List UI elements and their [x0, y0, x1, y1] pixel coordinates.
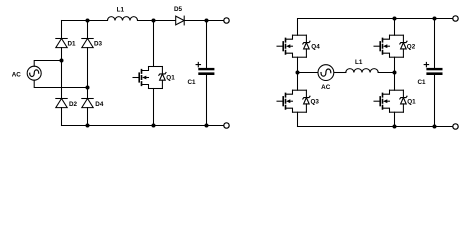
wire top rail (right circuit)	[298, 19, 453, 36]
transistor Q1 (left) MOSFET with body diode	[133, 67, 166, 89]
inductor L1 (right)	[346, 69, 378, 73]
inductor L1 (left)	[108, 17, 138, 21]
node dot AC to D3/D4 junction	[86, 86, 90, 90]
terminal output + (right circuit)	[453, 16, 458, 21]
diode D3	[82, 39, 93, 48]
wire Q1 source	[153, 89, 155, 126]
terminal output - (right circuit)	[453, 124, 458, 129]
diode D4	[82, 99, 93, 108]
transistor Q4 MOSFET with body diode	[277, 35, 310, 57]
node dot AC to D1/D2 junction	[60, 59, 64, 63]
svg-text:Q4: Q4	[311, 44, 320, 51]
node dot Q1 source at bottom rail (right)	[393, 125, 397, 129]
diode D5	[176, 16, 185, 25]
wire Q3 source to bottom rail	[297, 112, 299, 126]
svg-text:L1: L1	[355, 59, 363, 66]
wire AC to L1 (right)	[334, 72, 346, 74]
svg-text:L1: L1	[117, 7, 125, 14]
node dot C1 top at top rail	[205, 19, 209, 23]
wire bottom rail (left circuit)	[62, 125, 224, 127]
terminal output + (left circuit)	[224, 18, 229, 23]
svg-text:Q1: Q1	[166, 75, 175, 82]
transistor Q2 MOSFET with body diode	[374, 35, 407, 57]
capacitor C1 (right)	[424, 19, 442, 127]
wire AC bottom to bridge right node	[34, 80, 87, 87]
diode D2	[56, 99, 67, 108]
wire Q1 source to bottom rail (right)	[394, 112, 396, 126]
node dot Q2 drain at top rail	[393, 17, 397, 21]
wire top rail mid segment	[138, 20, 176, 22]
transistor Q1 (right) MOSFET with body diode	[374, 90, 407, 112]
AC source (right)	[318, 65, 334, 81]
wire Q2 source to mid node	[394, 57, 396, 90]
svg-text:C1: C1	[188, 79, 197, 86]
node dot top of D3 column	[86, 19, 90, 23]
wire AC top to bridge left node	[34, 61, 61, 67]
wire bottom rail (right circuit)	[298, 126, 453, 128]
node dot mid node right (right circuit)	[393, 71, 397, 75]
node dot C1 top at top rail (right)	[433, 17, 437, 21]
svg-text:AC: AC	[12, 72, 22, 79]
wire D1/D2 column bottom	[61, 108, 63, 126]
node dot Q1 source at bottom rail	[152, 124, 156, 128]
wire D3/D4 column top	[87, 21, 89, 39]
node dot C1 bottom at bottom rail (right)	[433, 125, 437, 129]
svg-text:D5: D5	[174, 6, 183, 13]
node dot mid node left (right circuit)	[296, 71, 300, 75]
svg-text:Q2: Q2	[407, 44, 416, 51]
svg-text:D3: D3	[94, 40, 103, 47]
node dot Q1 drain at top rail	[152, 19, 156, 23]
capacitor C1 (left)	[196, 21, 214, 126]
AC source (left)	[27, 66, 41, 80]
wire mid rail left segment	[298, 72, 318, 74]
terminal output - (left circuit)	[224, 123, 229, 128]
svg-text:AC: AC	[321, 84, 331, 91]
wire D3/D4 column bottom	[87, 108, 89, 126]
wire top rail left segment	[62, 20, 108, 22]
svg-text:D4: D4	[95, 101, 104, 108]
wire D3/D4 column middle	[87, 48, 89, 99]
node dot C1 bottom at bottom rail	[205, 124, 209, 128]
wire L1 to mid node right	[378, 72, 394, 74]
wire top rail right segment	[184, 20, 223, 22]
wire Q4 source to mid node	[297, 57, 299, 90]
svg-text:C1: C1	[418, 79, 427, 86]
diode D1	[56, 39, 67, 48]
transistor Q3 MOSFET with body diode	[277, 90, 310, 112]
wire D1/D2 column top	[61, 21, 63, 39]
svg-text:Q3: Q3	[311, 99, 320, 106]
svg-text:D2: D2	[69, 101, 78, 108]
wire D1/D2 column middle	[61, 48, 63, 99]
svg-text:D1: D1	[68, 40, 77, 47]
wire Q1 drain	[153, 21, 155, 67]
wire Q2 drain	[394, 19, 396, 36]
node dot bottom of D4 column	[86, 124, 90, 128]
svg-text:Q1: Q1	[407, 99, 416, 106]
